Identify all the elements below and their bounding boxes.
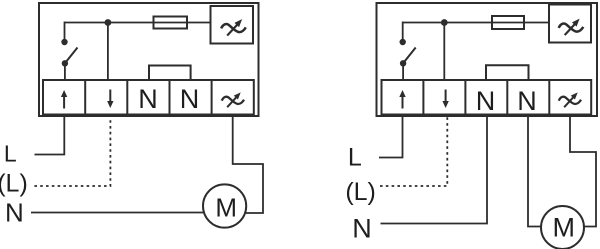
terminal 1 up-arrow (left)	[61, 90, 67, 109]
fuse F1 (left)	[154, 17, 188, 29]
fan unit symbol (right)	[559, 19, 584, 35]
switch S1 upper lead (right)	[402, 22, 404, 42]
motor M1 circle (right)	[541, 206, 584, 249]
terminal divider 2-3 (right)	[464, 80, 466, 115]
terminal divider 1-2 (right)	[422, 80, 424, 115]
(L) dashed wire (left)	[34, 116, 110, 187]
N-N jumper bracket (left)	[149, 66, 191, 81]
svg-text:L: L	[4, 141, 17, 167]
terminal 5 fan symbol (right)	[559, 92, 581, 107]
svg-text:M: M	[552, 213, 575, 243]
fan unit box (right)	[549, 5, 591, 43]
N wire to motor (left)	[31, 212, 204, 214]
junction dot (left)	[105, 19, 112, 26]
svg-text:N: N	[180, 84, 200, 114]
N wire to terminal 3 (right)	[381, 116, 488, 224]
svg-text:N: N	[517, 86, 537, 116]
terminal divider 3-4 (left)	[169, 80, 171, 115]
L feed wire (right)	[379, 116, 403, 158]
switch S1 blade (right)	[403, 48, 416, 64]
svg-text:(L): (L)	[345, 178, 376, 206]
terminal divider 4-5 (right)	[548, 80, 550, 115]
device outer box (right)	[377, 3, 598, 116]
svg-text:N: N	[138, 84, 158, 114]
N-N jumper bracket (right)	[486, 65, 529, 80]
switch S1 top contact (right)	[400, 39, 406, 45]
fan unit symbol (left)	[221, 19, 246, 35]
terminal strip outline (right)	[382, 80, 592, 115]
(L) dashed wire (right)	[380, 116, 447, 187]
motor M1 circle (left)	[203, 184, 246, 227]
internal top wire (right)	[403, 22, 549, 24]
svg-text:N: N	[352, 214, 372, 244]
fuse F1 (right)	[492, 16, 524, 29]
terminal 1 up-arrow (right)	[399, 90, 405, 109]
fan unit box (left)	[211, 6, 254, 44]
terminal divider 2-3 (left)	[126, 80, 128, 115]
switch S1 bottom contact (right)	[400, 60, 406, 66]
internal top wire (left)	[65, 22, 211, 24]
terminal divider 4-5 (left)	[211, 80, 213, 115]
svg-text:M: M	[215, 192, 237, 222]
terminal divider 3-4 (right)	[506, 80, 508, 115]
wire junction to terminal 2 (right)	[443, 23, 445, 81]
svg-text:N: N	[5, 198, 24, 228]
svg-text:(L): (L)	[0, 169, 28, 197]
L feed wire (left)	[35, 116, 65, 155]
terminal 5 fan symbol (left)	[222, 92, 244, 107]
terminal 2 down-arrow (left)	[107, 90, 113, 109]
svg-text:N: N	[476, 86, 496, 116]
fan terminal to motor wire (right)	[570, 116, 596, 227]
fan terminal to motor wire (left)	[233, 116, 263, 214]
switch S1 blade (left)	[65, 48, 78, 64]
switch S1 top contact (left)	[61, 39, 67, 45]
wire junction to terminal 2 (left)	[107, 23, 109, 81]
device outer box (left)	[39, 3, 259, 116]
switch S1 upper lead (left)	[64, 22, 66, 42]
terminal divider 1-2 (left)	[84, 80, 86, 115]
terminal 2 down-arrow (right)	[442, 90, 448, 109]
junction dot (right)	[441, 19, 448, 26]
switch S1 lower lead (right)	[402, 63, 404, 80]
terminal 4 to motor wire (right)	[528, 116, 542, 227]
switch S1 bottom contact (left)	[62, 60, 68, 66]
svg-text:L: L	[348, 143, 362, 171]
terminal strip outline (left)	[43, 80, 254, 115]
switch S1 lower lead (left)	[64, 63, 66, 80]
